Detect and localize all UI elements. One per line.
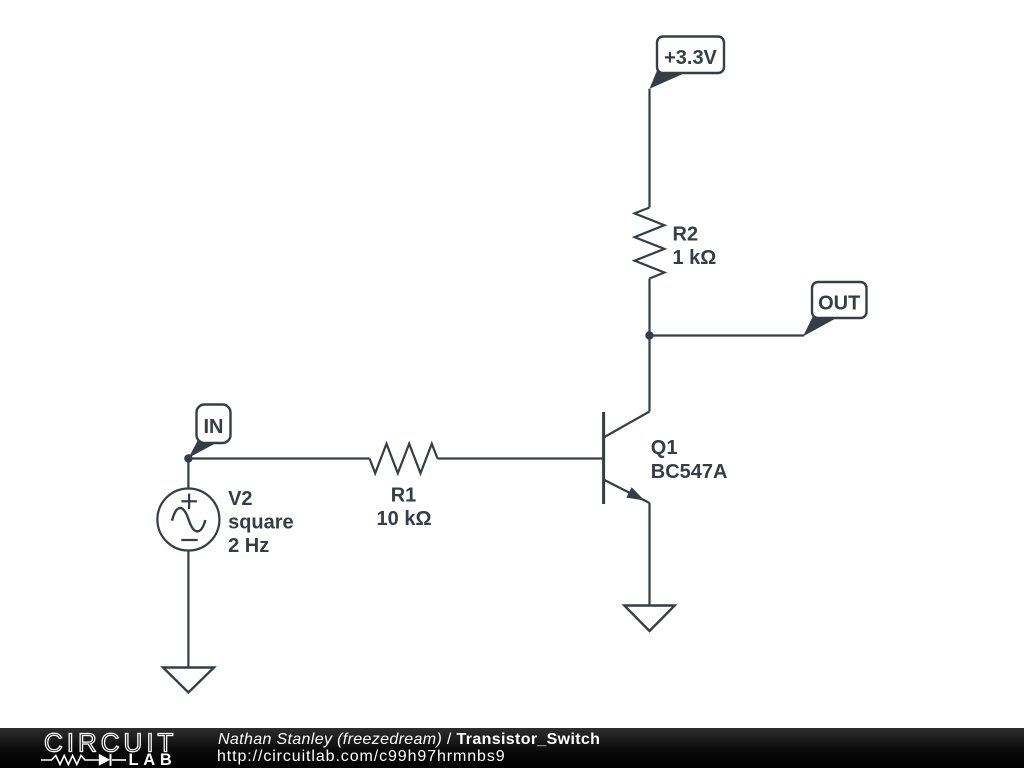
svg-text:10 kΩ: 10 kΩ: [377, 508, 432, 530]
wire +3.3V to R2: [648, 89, 650, 208]
svg-text:V2: V2: [228, 488, 252, 510]
svg-text:Nathan Stanley (freezedream) /: Nathan Stanley (freezedream) / Transisto…: [218, 731, 600, 748]
wire V2 to ground: [187, 551, 189, 668]
svg-text:R2: R2: [673, 224, 699, 246]
footer bar: [0, 728, 1024, 768]
svg-text:1 kΩ: 1 kΩ: [673, 247, 717, 269]
transistor Q1: [604, 412, 650, 505]
resistor R1: [370, 444, 438, 474]
net flag IN: [188, 405, 230, 459]
svg-text:2 Hz: 2 Hz: [228, 535, 269, 557]
resistor R2: [635, 208, 665, 279]
svg-text:square: square: [228, 511, 294, 533]
svg-text:Q1: Q1: [651, 437, 678, 459]
net flag +3.3V: [650, 37, 725, 89]
ground (Q1 emitter): [624, 606, 674, 632]
label R2 value: [673, 224, 717, 270]
wire emitter to ground: [648, 503, 650, 606]
svg-text:LAB: LAB: [129, 751, 177, 768]
wire R2 to node: [648, 279, 650, 336]
svg-text:+3.3V: +3.3V: [664, 47, 717, 69]
svg-text:R1: R1: [391, 484, 417, 506]
label V2 value: [228, 488, 294, 557]
svg-text:BC547A: BC547A: [651, 461, 728, 483]
ground (V2): [163, 668, 214, 693]
logo resistor-diode glyph: [41, 754, 126, 766]
wire IN node to V2: [187, 459, 189, 489]
wire R1 to IN node: [188, 457, 369, 459]
label R1 value: [377, 484, 432, 530]
net flag OUT: [803, 282, 867, 336]
svg-text:OUT: OUT: [818, 293, 860, 315]
wire base to R1: [438, 457, 603, 459]
wire node to collector: [648, 336, 650, 412]
svg-text:IN: IN: [204, 416, 224, 438]
label Q1: [651, 437, 728, 483]
svg-text:http://circuitlab.com/c99h97hr: http://circuitlab.com/c99h97hrmnbs9: [217, 748, 506, 765]
wire node to OUT: [650, 334, 805, 336]
node IN junction: [184, 454, 192, 462]
voltage source V2: [157, 489, 219, 551]
node junction: [645, 331, 653, 339]
